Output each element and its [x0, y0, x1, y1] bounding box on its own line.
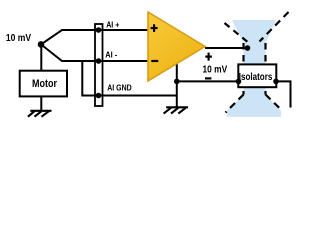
label minus at isolator input — [205, 77, 211, 79]
junction dot AI+ terminal — [96, 27, 102, 33]
svg-text:Isolators: Isolators — [239, 72, 273, 83]
isolation barrier dashed edge top-right — [260, 12, 289, 42]
ground symbol at AI GND — [164, 107, 189, 113]
wire AI GND to ground riser — [99, 95, 177, 97]
junction dot isolator left pin — [236, 79, 242, 85]
op-amp U1 minus input marker — [151, 60, 158, 62]
op-amp U1 — [148, 12, 205, 81]
ground symbol at motor — [28, 111, 52, 117]
wire AI- from node A to op-amp — [41, 44, 148, 61]
svg-text:AI +: AI + — [106, 20, 119, 30]
svg-text:10 mV: 10 mV — [6, 32, 31, 44]
isolation barrier dashed edge bottom-left — [226, 95, 244, 113]
wire op-amp output to isolator — [205, 47, 248, 49]
wire op-amp reference riser to ground — [176, 63, 178, 108]
connector J1 terminal strip — [95, 24, 103, 106]
wire AI+ from node A to op-amp — [41, 30, 148, 44]
junction dot reference riser — [174, 79, 180, 85]
isolator U2 box — [238, 64, 276, 87]
isolation barrier blue funnel — [227, 20, 282, 117]
label plus at isolator input — [205, 53, 212, 61]
junction dot AI GND terminal — [96, 93, 102, 99]
isolation barrier dashed edge top-left — [225, 23, 250, 44]
junction dot isolator right pin — [273, 79, 279, 85]
svg-text:10 mV: 10 mV — [203, 64, 228, 76]
wire node A to motor — [40, 44, 42, 70]
wire motor to ground — [40, 96, 42, 110]
svg-text:Motor: Motor — [32, 78, 58, 90]
op-amp U1 plus input marker — [151, 24, 158, 32]
svg-text:AI -: AI - — [105, 50, 117, 60]
wire AI- to AI GND tie — [82, 61, 98, 96]
isolation barrier dashed edge right vertical — [264, 43, 266, 95]
motor M1 box — [20, 71, 67, 97]
isolation barrier dashed edge bottom-right — [266, 95, 283, 111]
isolation barrier dashed edge left vertical — [242, 43, 244, 95]
junction dot AI- terminal — [96, 58, 102, 64]
wire isolator output — [276, 81, 291, 107]
svg-text:AI GND: AI GND — [107, 83, 132, 93]
node A junction dot — [38, 41, 45, 48]
wire isolator minus input — [177, 80, 239, 82]
junction dot op-amp output at barrier — [245, 45, 251, 51]
